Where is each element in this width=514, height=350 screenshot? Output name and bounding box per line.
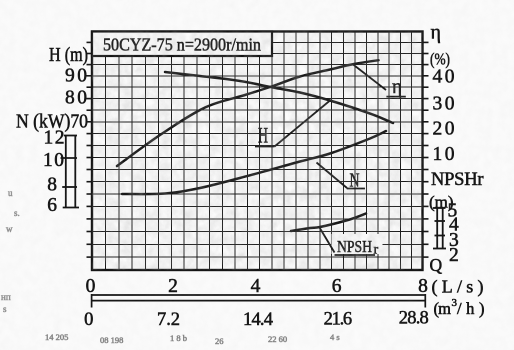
svg-text:u: u [8,188,13,198]
title box [92,32,272,57]
label eta with underline and leader [353,64,406,98]
m3/h double-line scale bar [91,294,426,308]
plot border frame [92,32,423,271]
svg-text:08 198: 08 198 [100,335,123,345]
curve H [165,72,393,123]
svg-text:26: 26 [215,336,224,346]
left axis tick marks [87,42,93,257]
curve NPSHr [291,214,366,232]
svg-text:22 60: 22 60 [268,334,287,344]
svg-text:14 205: 14 205 [45,332,68,342]
right axis tick marks [423,42,429,257]
label NPSHr with underline and leader [320,228,383,258]
curve eta [117,60,379,166]
label H with underline and leader [255,101,330,148]
svg-text:s.: s. [14,208,20,218]
faint scan-noise ghosts at bottom [45,332,340,346]
svg-text:s: s [3,304,7,314]
svg-text:w: w [6,224,13,234]
svg-text:нп: нп [1,292,11,302]
svg-text:4 s: 4 s [330,332,340,342]
svg-text:1 8 b: 1 8 b [170,333,187,343]
curve N [122,131,386,194]
graph paper grid [92,32,423,271]
N(kW) ladder scale [61,136,80,208]
label N with underline and leader [317,163,366,192]
NPSHr ladder scale [433,208,446,249]
